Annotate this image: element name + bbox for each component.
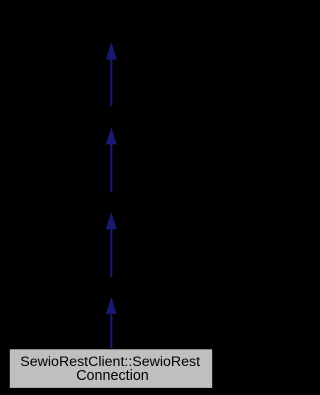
node SewioRestClient::SewioRestConnection [9,349,212,389]
inheritance arrow 4 (into node) [106,297,117,350]
inheritance arrow 2 [106,127,117,193]
svg-text:Connection: Connection [76,368,149,384]
inheritance arrow 1 (topmost) [106,42,117,106]
inheritance arrow 3 [106,212,117,277]
